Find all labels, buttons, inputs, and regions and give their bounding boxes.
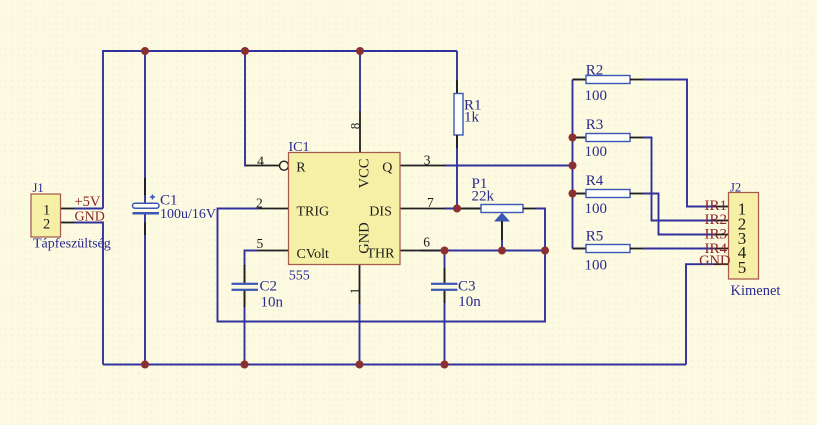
wire R2 row left	[573, 79, 587, 81]
svg-text:5: 5	[738, 258, 747, 277]
resistor R2 body	[573, 76, 644, 84]
junction rail R4	[569, 190, 577, 198]
pin IC1-6 THR	[400, 250, 442, 252]
pin J1-1	[61, 208, 75, 210]
svg-text:DIS: DIS	[369, 204, 392, 219]
svg-text:100u/16V: 100u/16V	[160, 207, 216, 222]
svg-text:8: 8	[347, 123, 362, 130]
svg-text:10n: 10n	[261, 295, 284, 311]
svg-text:+5V: +5V	[75, 194, 101, 210]
pin J2-3	[715, 234, 729, 236]
svg-text:555: 555	[289, 269, 310, 284]
pin IC1-4 R with bubble	[246, 165, 280, 167]
wire GND from J1 pin2	[75, 223, 104, 365]
junction rail pin3	[569, 162, 577, 170]
resistor R5 body	[573, 245, 644, 253]
svg-text:IC1: IC1	[289, 140, 310, 155]
junction bottom bus IC GND	[356, 361, 364, 369]
junction rail R3	[569, 134, 577, 142]
svg-text:5: 5	[257, 236, 264, 251]
wire C3 top lead	[444, 251, 446, 284]
pin IC1-7 DIS	[400, 208, 445, 210]
capacitor C2	[232, 265, 259, 307]
wire R4 to J2 pin3 IR3	[643, 194, 715, 235]
wire P1 right to THR	[536, 209, 545, 251]
pin J1-2	[61, 222, 75, 224]
pin IC1-3 Q	[400, 165, 445, 167]
svg-text:TRIG: TRIG	[297, 204, 330, 219]
pin J2-2	[715, 220, 729, 222]
junction wiper/THR	[498, 247, 506, 255]
wire R1 top lead	[456, 51, 458, 93]
junction top bus VCC	[356, 47, 364, 55]
pin J2-1	[715, 206, 729, 208]
junction top bus C1	[141, 47, 149, 55]
svg-text:GND: GND	[699, 253, 730, 269]
svg-text:J2: J2	[730, 181, 741, 195]
pin IC1-1 GND	[359, 265, 361, 305]
wire CVolt pin5 to C2	[245, 251, 259, 284]
wire IC GND pin1 lead	[359, 303, 361, 365]
svg-text:R2: R2	[586, 62, 604, 78]
wire R3 row left	[573, 137, 587, 139]
svg-text:3: 3	[424, 152, 431, 167]
svg-text:4: 4	[257, 154, 264, 169]
svg-text:R5: R5	[586, 229, 604, 245]
svg-text:R3: R3	[586, 117, 604, 133]
resistor R1 body	[454, 80, 463, 148]
wire R1 bottom lead	[456, 135, 458, 209]
junction P1 right/THR	[541, 247, 549, 255]
svg-text:C3: C3	[458, 279, 476, 295]
svg-text:2: 2	[256, 195, 263, 210]
svg-text:100: 100	[585, 144, 608, 160]
junction bottom bus C3	[441, 361, 449, 369]
svg-text:Q: Q	[382, 160, 392, 175]
wire top bus	[103, 51, 457, 209]
wire C1 bottom lead	[144, 215, 146, 365]
svg-text:1k: 1k	[464, 110, 480, 126]
wire J2 pin5 GND to bottom bus	[686, 264, 715, 364]
wire DIS pin7 net	[444, 208, 481, 210]
wire C1 top lead	[144, 51, 146, 203]
wire R2 to J2 pin1 IR1	[643, 80, 715, 207]
svg-text:100: 100	[585, 88, 608, 104]
svg-text:2: 2	[43, 217, 50, 233]
svg-text:CVolt: CVolt	[297, 247, 330, 262]
junction bottom bus C2	[241, 361, 249, 369]
resistor R3 body	[573, 134, 644, 142]
wire reset pin4 net	[245, 51, 247, 166]
IC IC1 555 body	[289, 153, 401, 265]
svg-text:R: R	[296, 160, 306, 175]
wire Q pin3 net	[444, 165, 573, 167]
svg-text:6: 6	[423, 235, 430, 250]
capacitor C3	[431, 268, 458, 303]
svg-text:Tápfeszültség: Tápfeszültség	[33, 237, 111, 252]
wire C2 bottom lead	[244, 291, 246, 365]
svg-text:VCC: VCC	[356, 159, 372, 189]
wire +5V from J1 pin1	[75, 208, 104, 210]
wire THR pin6 net	[420, 250, 545, 252]
svg-text:7: 7	[427, 195, 434, 210]
svg-text:1: 1	[347, 288, 362, 295]
wire P1 wiper stem	[501, 221, 503, 251]
resistor R4 body	[573, 190, 644, 198]
svg-text:22k: 22k	[472, 189, 495, 205]
svg-text:Kimenet: Kimenet	[731, 283, 781, 299]
pin J2-4	[715, 248, 729, 250]
capacitor C1 electrolytic	[133, 178, 160, 235]
pin J2-5	[715, 263, 729, 265]
pin IC1-2 TRIG	[258, 208, 289, 210]
connector J1 body	[31, 194, 61, 237]
wire R3 to J2 pin2 IR2	[643, 138, 715, 221]
wire bottom GND bus	[103, 364, 686, 366]
connector J2 body	[729, 193, 759, 280]
wire R2-R5 left rail	[572, 80, 574, 249]
svg-text:C2: C2	[260, 279, 278, 295]
junction bottom bus C1	[141, 361, 149, 369]
potentiometer P1	[460, 205, 536, 241]
svg-text:10n: 10n	[458, 294, 481, 310]
wire VCC pin8 net	[359, 51, 361, 112]
junction R1/DIS	[453, 205, 461, 213]
junction top bus pin4	[241, 47, 249, 55]
pin IC1-5 CVolt	[258, 250, 289, 252]
pin IC1-8 VCC	[359, 112, 361, 153]
svg-text:R4: R4	[586, 173, 604, 189]
wire R4 row left	[573, 193, 587, 195]
junction C3/THR	[441, 247, 449, 255]
wire C3 bottom lead	[444, 291, 446, 365]
wire TRIG pin2 net	[218, 209, 546, 322]
svg-text:GND: GND	[356, 222, 372, 253]
svg-text:100: 100	[585, 201, 608, 217]
svg-text:GND: GND	[75, 209, 105, 224]
svg-text:J1: J1	[33, 181, 44, 195]
wire R5 to J2 pin4 IR4	[643, 248, 715, 250]
svg-text:100: 100	[585, 258, 608, 274]
wire R5 row left	[573, 248, 587, 250]
